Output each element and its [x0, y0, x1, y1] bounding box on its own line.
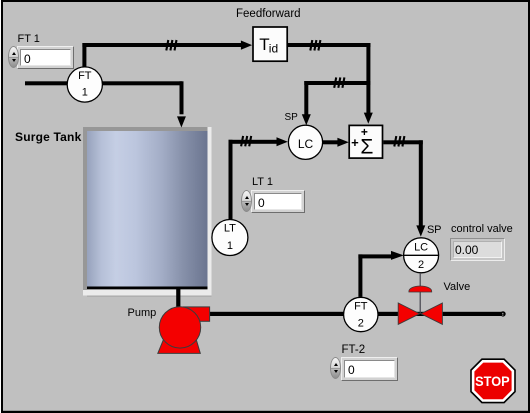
hash marks on sum output	[394, 136, 404, 146]
numeric indicator control valve (0.00)	[450, 238, 505, 261]
hash marks on Tid output	[310, 40, 320, 50]
arrow into sum (left)	[337, 138, 348, 147]
svg-text:2: 2	[418, 259, 424, 271]
svg-text:LT: LT	[224, 222, 236, 234]
svg-text:1: 1	[82, 87, 88, 99]
wire: vertical drop to sum	[366, 43, 370, 113]
label LT 1	[252, 176, 273, 188]
Tid block	[253, 27, 287, 61]
wire: FT-2 riser to LC-2	[358, 254, 362, 297]
transmitter circle FT 2	[344, 297, 378, 331]
pipe end dot	[500, 311, 505, 316]
wire: stub into FT-1 from left	[25, 81, 68, 85]
wire: branch horizontal to SP of LC	[304, 81, 370, 85]
pump body	[159, 307, 200, 348]
surge tank frame shadow	[87, 296, 212, 297]
svg-text:id: id	[269, 41, 278, 55]
pump base	[158, 337, 201, 353]
transmitter circle LT 1	[212, 220, 248, 256]
label SP (at LC)	[285, 113, 298, 123]
wire: LT to LC horizontal	[229, 140, 278, 144]
label SP (at LC 2)	[427, 224, 441, 236]
surge tank body (gradient cylinder)	[87, 131, 208, 287]
hash marks on FT-1 to Tid wire	[166, 40, 176, 50]
hash marks on branch	[334, 77, 344, 87]
wire: top horizontal FT-1 to Tid	[82, 43, 241, 47]
summer block	[349, 125, 382, 158]
svg-text:+: +	[351, 135, 359, 150]
wire: horizontal into LC-2	[358, 254, 391, 258]
valve body (bowtie)	[398, 303, 420, 324]
svg-text:LC: LC	[298, 137, 314, 151]
surge tank bottom line	[87, 287, 208, 290]
transmitter circle FT 1	[67, 67, 102, 102]
label FT-2	[342, 344, 366, 356]
wire: drop to LC-2	[419, 140, 423, 226]
label Pump	[128, 307, 157, 319]
controller circle LC 2	[404, 238, 439, 273]
label Feedforward	[236, 8, 301, 20]
numeric control FT-2	[341, 357, 398, 381]
wire: SP drop into LC	[304, 81, 308, 115]
svg-text:1: 1	[227, 240, 233, 252]
wire: FT-1 top riser	[82, 43, 86, 68]
svg-text:FT: FT	[354, 301, 368, 313]
svg-text:STOP: STOP	[475, 373, 510, 389]
pump outlet rect	[183, 307, 209, 321]
svg-text:2: 2	[358, 317, 364, 329]
valve stem	[419, 273, 421, 314]
valve actuator dome	[409, 286, 432, 292]
arrow into Tid	[241, 41, 252, 50]
wire: drop into tank	[180, 81, 184, 114]
svg-text:LC: LC	[414, 242, 428, 254]
svg-text:FT: FT	[78, 70, 92, 82]
numeric control FT 1	[17, 46, 74, 69]
arrow into LC-2 (left)	[391, 251, 404, 260]
surge tank frame bevel	[83, 127, 212, 296]
wire: FT-1 right horizontal to tank	[102, 81, 182, 85]
wire: LC to sum	[323, 140, 338, 144]
wire: tank outlet stub	[176, 288, 180, 308]
arrow into LC (top)	[302, 114, 311, 125]
arrow into LC (left)	[277, 137, 288, 146]
STOP button	[470, 358, 516, 403]
wire: LT riser	[229, 140, 233, 221]
controller circle LC	[288, 125, 322, 159]
numeric control LT 1	[251, 190, 305, 213]
arrow into sum (top)	[364, 113, 373, 124]
wire: main pipe from pump to right edge	[208, 312, 502, 316]
wire: Tid output horizontal	[288, 43, 371, 47]
label FT 1	[18, 33, 40, 45]
label Valve	[444, 281, 471, 293]
svg-text:Σ: Σ	[360, 135, 373, 158]
arrow into tank	[177, 116, 186, 127]
hash marks on LT-LC wire	[241, 136, 251, 146]
arrow into LC-2 (top)	[416, 225, 425, 236]
label control valve	[451, 223, 513, 235]
wire: sum output	[383, 140, 423, 144]
label Surge Tank	[15, 131, 81, 143]
